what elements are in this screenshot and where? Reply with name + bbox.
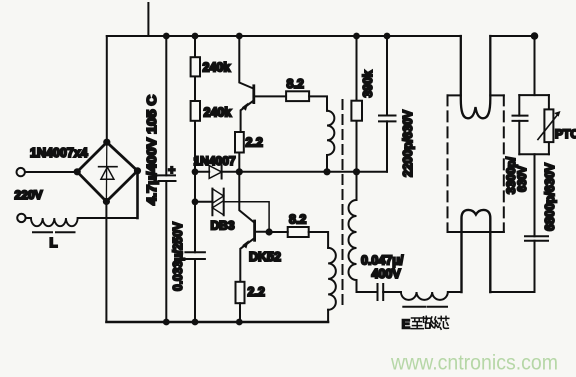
wire: terminal to bridge left [25,171,77,173]
core dashes of N4 [403,306,447,308]
svg-text:240k: 240k [204,106,232,120]
wire: left vertical rail to bridge [106,36,108,142]
wire: R3 to midpoint [238,153,240,172]
wire: bottom negative rail [106,321,328,323]
node: junction DB3 row [192,198,199,205]
diode D5 1N4007 [195,166,222,179]
node: Q2 base [266,228,273,235]
svg-text:PTC: PTC [555,127,576,141]
svg-text:DK52: DK52 [249,250,281,264]
winding N1 feedback (Q1) [327,111,334,155]
wire: bottom of lamp circuit [490,291,534,293]
wire: half-bridge midpoint rail [222,171,387,173]
svg-text:6800p/630V: 6800p/630V [543,162,557,231]
wire: inductor to bridge right vertex [136,171,139,218]
svg-text:220V: 220V [15,188,43,202]
resistor R3 2.2 [235,132,244,153]
node: junction 240k column / diode anode [192,168,199,175]
node: top rail at Q1 collector [236,33,243,40]
svg-text:390k: 390k [361,70,375,97]
thermistor PTC [538,95,561,154]
winding N4 output (E core) [401,292,462,300]
svg-text:630V: 630V [517,166,529,192]
svg-text:E: E [402,317,411,332]
svg-text:240k: 240k [203,61,231,75]
wire: R7 to winding N2 [309,232,328,248]
diac DB3 [195,189,224,216]
svg-text:8.2: 8.2 [289,213,306,227]
transistor Q1 [239,36,286,132]
wire: N1 to midpoint [326,155,328,172]
wire: node to PTC/3300p bus [534,36,536,95]
svg-text:400V: 400V [372,267,402,281]
capacitor C2 0.033μ/250V [185,252,205,259]
resistor R2 240k [191,101,200,121]
svg-text:2.2: 2.2 [246,136,263,150]
wire: DB3 to Q2 base node [224,202,269,232]
resistor R1 240k [191,57,200,76]
svg-text:DB3: DB3 [211,219,235,233]
node: top rail at 240k column [192,33,199,40]
svg-text:1N4007x4: 1N4007x4 [30,146,88,160]
node: bottom rail at R6 [236,319,243,326]
node: bridge top vertex [103,139,110,146]
winding N3 main inductor [349,172,378,292]
node: top rail at C3 [384,33,391,40]
svg-text:+: + [168,163,175,177]
wire: stub to top edge [147,3,149,36]
capacitor C1 4.7μ/400V 105C electrolytic [156,36,176,322]
capacitor C5 3300p/630V [513,95,528,154]
node: bridge bottom vertex [103,198,110,205]
resistor R7 8.2 [288,227,309,237]
node: midpoint at feedback winding N1 [323,168,330,175]
svg-text:0.033μ/250V: 0.033μ/250V [171,221,185,291]
wire: upper bus [519,94,549,96]
wire: base node to R7 [269,231,288,233]
wire: lower bus [519,153,549,155]
inductor L [26,218,138,226]
lamp tube outline (dashed) [448,95,504,232]
core dashes of L [33,231,75,233]
resistor R5 390k [351,36,362,172]
winding N2 feedback (Q2) [328,248,336,310]
wire: 240k column [194,36,196,322]
svg-text:8.2: 8.2 [287,77,304,91]
terminal: AC line bottom [17,214,25,222]
wire: R6 to bottom rail [239,303,241,322]
wire: bridge bottom to negative rail [105,202,107,323]
label E型磁芯 [402,316,449,331]
svg-text:1N4007: 1N4007 [194,154,236,168]
svg-text:2.2: 2.2 [248,285,265,299]
wire: top rail right segment [490,35,534,37]
terminal: AC line top [17,168,25,176]
capacitor C3 2200p/630V [379,36,396,172]
svg-text:L: L [50,235,58,250]
node: midpoint at Q1/Q2 column [236,168,243,175]
capacitor C4 0.047μ/400V [378,284,401,300]
wire: R4 to winding N1 [309,96,327,110]
wire: top supply rail [107,35,461,37]
node: midpoint at 390k / main winding [353,168,360,175]
bridge rectifier 1N4007x4 [77,142,137,201]
capacitor C6 6800p/630V [525,154,548,292]
svg-text:2200p/630V: 2200p/630V [401,109,415,177]
lamp filament top [461,36,491,118]
lamp filament bottom [462,210,491,292]
transformer core line [342,100,344,305]
resistor R6 2.2 [236,282,245,303]
node: top rail at 390k [353,33,360,40]
transistor Q2 DK52 [239,172,269,282]
node: bottom rail at C1 [163,319,170,326]
node: bridge right vertex [134,167,141,174]
node: junction top right [531,32,539,40]
svg-text:0.047μ/: 0.047μ/ [361,254,404,268]
node: bottom rail at C2 [192,319,199,326]
svg-text:www.cntronics.com: www.cntronics.com [390,352,558,375]
wire: N2 to bottom rail [327,310,329,322]
node: bridge left vertex [74,168,81,175]
svg-text:4.7μ/400V 105 C: 4.7μ/400V 105 C [145,95,159,205]
node: top rail at C1 [163,33,170,40]
resistor R4 8.2 [286,91,309,101]
